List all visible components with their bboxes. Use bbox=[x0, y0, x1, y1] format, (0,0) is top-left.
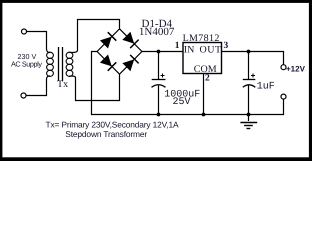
svg-text:IN: IN bbox=[184, 45, 195, 56]
svg-text:Tx= Primary 230V,Secondary 12V: Tx= Primary 230V,Secondary 12V,1A bbox=[46, 119, 179, 129]
svg-text:3: 3 bbox=[224, 41, 229, 51]
svg-text:25V: 25V bbox=[173, 97, 191, 108]
svg-text:1N4007: 1N4007 bbox=[139, 26, 175, 38]
svg-text:OUT: OUT bbox=[200, 45, 222, 56]
svg-text:1: 1 bbox=[175, 41, 180, 51]
svg-text:Tx: Tx bbox=[57, 79, 68, 90]
svg-text:2: 2 bbox=[205, 73, 210, 83]
svg-text:+12V: +12V bbox=[286, 65, 306, 74]
svg-text:AC Supply: AC Supply bbox=[11, 59, 42, 68]
svg-text:1uF: 1uF bbox=[257, 82, 275, 93]
svg-text:LM7812: LM7812 bbox=[183, 33, 220, 44]
svg-text:Stepdown Transformer: Stepdown Transformer bbox=[65, 129, 147, 139]
